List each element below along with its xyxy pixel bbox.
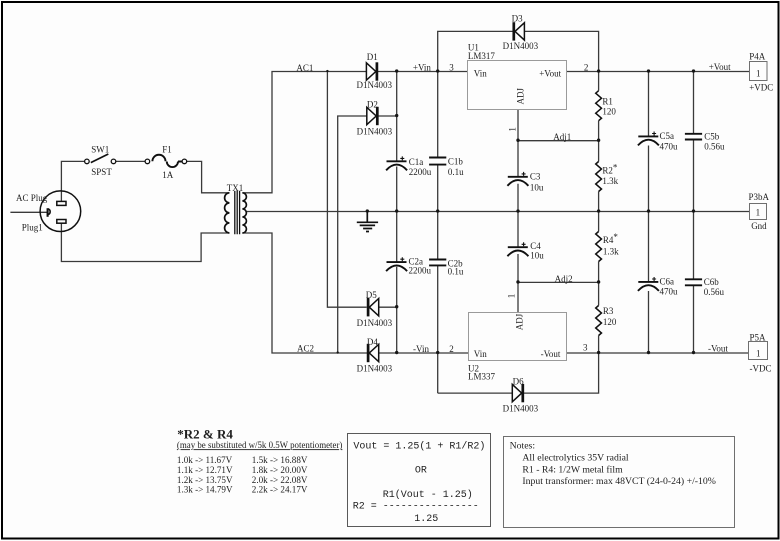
capacitor C1a xyxy=(386,156,432,177)
wire diode D3 loop over U1 xyxy=(438,31,599,71)
svg-text:All electrolytics 35V radial: All electrolytics 35V radial xyxy=(522,453,629,464)
junction D5 cathode node xyxy=(395,305,398,308)
svg-text:C6b: C6b xyxy=(704,277,720,287)
connector P4A pin 1 +VDC xyxy=(749,52,773,93)
svg-text:0.1u: 0.1u xyxy=(448,167,464,177)
svg-text:D6: D6 xyxy=(513,376,524,386)
svg-text:1.5k -> 16.88V: 1.5k -> 16.88V xyxy=(252,455,308,465)
wire fuse F1 to transformer primary top xyxy=(187,161,230,192)
junction D2 cathode node xyxy=(395,114,398,117)
svg-text:470u: 470u xyxy=(660,141,679,151)
svg-text:Plug1: Plug1 xyxy=(22,222,43,232)
wire node Adj2 xyxy=(518,281,599,283)
svg-text:Vin: Vin xyxy=(474,349,487,359)
wire node +Vin : D1 cathode to U1 pin 3 xyxy=(377,71,468,73)
svg-text:R1(Vout - 1.25): R1(Vout - 1.25) xyxy=(383,489,473,501)
svg-text:2: 2 xyxy=(449,344,454,354)
svg-text:C3: C3 xyxy=(530,172,541,182)
svg-text:D5: D5 xyxy=(366,290,377,300)
svg-text:P4A: P4A xyxy=(749,52,766,62)
AC plug Plug1 xyxy=(16,191,81,233)
svg-text:1: 1 xyxy=(507,294,517,299)
wire C4 vertical (Gnd to Adj2) xyxy=(517,212,519,283)
svg-text:1A: 1A xyxy=(162,170,174,180)
wire plug top to switch SW1 xyxy=(61,161,84,201)
svg-text:Notes:: Notes: xyxy=(510,440,535,451)
svg-text:D2: D2 xyxy=(367,99,378,109)
svg-text:AC1: AC1 xyxy=(296,63,313,73)
op-amp / regulator U2 LM337 xyxy=(468,313,567,382)
junction dots -Vin/-Vout bottom rail xyxy=(337,351,696,354)
svg-text:Input transformer: max 48VCT (: Input transformer: max 48VCT (24-0-24) +… xyxy=(522,476,716,487)
capacitor C2b xyxy=(429,259,464,277)
capacitor C5b xyxy=(685,132,725,152)
svg-text:1.8k -> 20.00V: 1.8k -> 20.00V xyxy=(252,465,308,475)
ground xyxy=(357,212,378,232)
svg-text:Adj1: Adj1 xyxy=(553,132,571,142)
capacitor C2a xyxy=(386,257,431,276)
svg-text:-Vin: -Vin xyxy=(413,344,429,354)
junction dots Adj1 xyxy=(516,139,600,142)
svg-text:3: 3 xyxy=(583,343,588,353)
svg-text:1: 1 xyxy=(508,127,518,132)
wire C5a/C6a vertical xyxy=(648,72,650,354)
resistor R1 xyxy=(596,91,617,121)
svg-text:1: 1 xyxy=(756,208,761,218)
svg-text:-VDC: -VDC xyxy=(750,364,772,374)
diode D4 xyxy=(357,337,393,374)
op-amp / regulator U1 LM317 xyxy=(468,42,567,109)
svg-text:1.3k: 1.3k xyxy=(603,247,619,257)
resistor R2 xyxy=(596,162,619,192)
wire C3 vertical (Adj1 to Gnd) xyxy=(517,141,519,212)
svg-text:LM337: LM337 xyxy=(468,372,496,382)
wire +Vin vertical through C1a down to -Vin (D4/D5 junctions) xyxy=(396,72,398,354)
diode D6 xyxy=(503,376,539,413)
capacitor C5a xyxy=(638,131,678,151)
svg-text:C6a: C6a xyxy=(660,277,675,287)
connector P5A pin 1 -VDC xyxy=(749,333,772,374)
svg-text:10u: 10u xyxy=(530,251,544,261)
svg-text:D1: D1 xyxy=(367,52,378,62)
wire D2 cathode to +Vin vertical xyxy=(377,115,396,117)
svg-text:R1: R1 xyxy=(602,96,613,106)
svg-text:+Vout: +Vout xyxy=(539,68,561,78)
svg-text:470u: 470u xyxy=(660,286,679,296)
svg-text:D4: D4 xyxy=(367,337,378,347)
svg-text:C1b: C1b xyxy=(448,156,464,166)
wire C5b/C6b vertical xyxy=(693,72,695,354)
svg-text:ADJ: ADJ xyxy=(514,313,524,330)
svg-text:1: 1 xyxy=(756,348,761,358)
svg-text:R1 - R4: 1/2W metal film: R1 - R4: 1/2W metal film xyxy=(522,464,623,475)
wire node AC1 : secondary top to D1 anode xyxy=(242,72,366,193)
resistor R3 xyxy=(596,306,617,336)
svg-text:AC Plug: AC Plug xyxy=(16,193,48,203)
wire node Gnd : center tap rail to P3bA xyxy=(246,211,749,213)
svg-text:120: 120 xyxy=(603,317,617,327)
svg-text:D1N4003: D1N4003 xyxy=(503,404,539,414)
capacitor C1b xyxy=(429,156,464,177)
svg-text:C5a: C5a xyxy=(660,131,675,141)
svg-text:0.56u: 0.56u xyxy=(704,142,725,152)
svg-text:2.2k -> 24.17V: 2.2k -> 24.17V xyxy=(252,485,308,495)
diode D5 xyxy=(357,290,393,328)
resistor R4 xyxy=(596,232,619,262)
wire switch SW1 to fuse F1 xyxy=(116,160,145,162)
svg-text:-Vout: -Vout xyxy=(708,344,728,354)
svg-text:D1N4003: D1N4003 xyxy=(357,126,393,136)
junction dots +Vin/+Vout top rail xyxy=(326,69,695,72)
wire D5 cathode-side to vertical xyxy=(379,306,397,308)
svg-text:D1N4003: D1N4003 xyxy=(357,363,393,373)
wire AC2 branch up to D2 anode xyxy=(338,116,367,353)
junction dots Adj2 xyxy=(516,280,600,283)
formula box Vout equation xyxy=(348,434,491,527)
capacitor C3 xyxy=(507,172,544,193)
note R2 R4 substitution table xyxy=(177,427,343,495)
wire AC line input stub to plug xyxy=(10,211,47,213)
svg-text:+VDC: +VDC xyxy=(749,83,773,93)
svg-text:D3: D3 xyxy=(512,13,523,23)
switch SW1 SPST xyxy=(85,145,116,178)
svg-text:2200u: 2200u xyxy=(409,266,432,276)
wire node AC2 : secondary bottom to D4 cathode-bar side xyxy=(242,233,367,353)
svg-text:+Vout: +Vout xyxy=(709,62,731,72)
svg-text:Vout = 1.25(1 + R1/R2): Vout = 1.25(1 + R1/R2) xyxy=(353,441,485,453)
capacitor C4 xyxy=(507,241,544,261)
wire AC1 branch down to D5 anode xyxy=(327,72,366,308)
wire U2 ADJ pin 1 xyxy=(517,282,519,312)
svg-text:SPST: SPST xyxy=(91,167,112,177)
svg-text:P5A: P5A xyxy=(750,333,767,343)
svg-text:SW1: SW1 xyxy=(91,145,109,155)
svg-text:2: 2 xyxy=(584,62,589,72)
svg-text:(may be substituted w/5k 0.5W: (may be substituted w/5k 0.5W potentiome… xyxy=(177,440,343,450)
svg-text:C4: C4 xyxy=(530,241,541,251)
svg-text:1.0k -> 11.67V: 1.0k -> 11.67V xyxy=(177,455,233,465)
svg-text:D1N4003: D1N4003 xyxy=(357,318,393,328)
wire C1b/C2b vertical (D3 left leg down to D6 left leg) xyxy=(437,72,439,394)
svg-text:3: 3 xyxy=(449,62,454,72)
wire U2 pin 3 to -Vout rail / P5A xyxy=(567,352,749,354)
svg-text:D1N4003: D1N4003 xyxy=(503,41,539,51)
svg-text:Vin: Vin xyxy=(474,68,487,78)
svg-text:0.56u: 0.56u xyxy=(704,287,725,297)
connector P3bA pin 1 Gnd xyxy=(749,192,770,231)
diode D2 xyxy=(357,99,393,136)
svg-text:2200u: 2200u xyxy=(409,167,432,177)
svg-text:+Vin: +Vin xyxy=(413,63,432,73)
svg-text:10u: 10u xyxy=(530,182,544,192)
svg-text:LM317: LM317 xyxy=(468,51,496,61)
svg-text:F1: F1 xyxy=(162,145,172,155)
svg-text:120: 120 xyxy=(602,107,616,117)
notes box xyxy=(504,437,735,528)
wire diode D6 loop under U2 xyxy=(438,353,599,393)
svg-text:Adj2: Adj2 xyxy=(555,274,573,284)
svg-text:R2 = ----------------: R2 = ---------------- xyxy=(353,501,479,512)
transformer TX1 xyxy=(225,183,247,234)
wire R1-R2-R4-R3 chain vertical xyxy=(598,72,600,354)
svg-text:ADJ: ADJ xyxy=(516,87,526,104)
svg-text:1.3k: 1.3k xyxy=(602,176,618,186)
svg-text:C5b: C5b xyxy=(704,132,720,142)
diode D3 xyxy=(503,13,539,51)
svg-text:1.25: 1.25 xyxy=(414,514,438,525)
junction dots Gnd rail xyxy=(366,209,696,212)
svg-text:-Vout: -Vout xyxy=(541,349,561,359)
svg-text:Gnd: Gnd xyxy=(751,221,767,231)
svg-text:OR: OR xyxy=(415,466,427,477)
svg-text:R3: R3 xyxy=(603,306,614,316)
wire node Adj1 xyxy=(518,140,599,142)
fuse F1 xyxy=(145,145,187,180)
svg-text:AC2: AC2 xyxy=(297,343,314,353)
wire D4 anode to -Vin / U2 pin 2 xyxy=(379,352,469,354)
wire U1 pin 2 to +Vout rail / P4A xyxy=(567,71,750,73)
wire plug bottom to transformer primary bottom xyxy=(61,223,229,261)
svg-text:P3bA: P3bA xyxy=(749,192,770,202)
svg-text:1.3k -> 14.79V: 1.3k -> 14.79V xyxy=(177,485,233,495)
diode D1 xyxy=(357,52,393,90)
svg-text:0.1u: 0.1u xyxy=(448,267,464,277)
svg-text:D1N4003: D1N4003 xyxy=(357,80,393,90)
svg-text:1.1k -> 12.71V: 1.1k -> 12.71V xyxy=(177,465,233,475)
capacitor C6b xyxy=(685,277,725,297)
svg-text:C1a: C1a xyxy=(409,157,424,167)
wire U1 ADJ pin 1 xyxy=(517,110,519,141)
capacitor C6a xyxy=(638,277,678,297)
svg-text:1: 1 xyxy=(756,69,761,79)
